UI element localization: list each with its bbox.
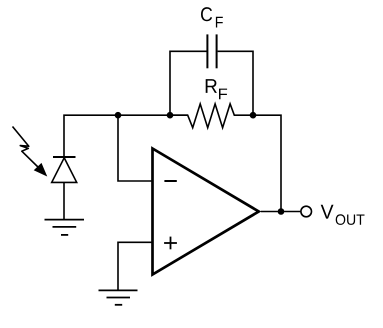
ground (photodiode) (45, 220, 85, 235)
photodiode D1: cathode bar (53, 156, 76, 158)
light arrow head (35, 164, 47, 176)
wire: non-inverting input to ground (118, 242, 152, 290)
wire: main wire right segment down to output node (253, 115, 281, 211)
wire: photodiode anode to ground (63, 182, 65, 219)
capacitor CF (207, 34, 216, 68)
label VOUT (321, 205, 334, 219)
wire: capacitor right side down to main wire (218, 51, 253, 115)
output terminal circle (301, 206, 312, 217)
wire: op-amp output (261, 211, 300, 213)
wire: left feedback riser to capacitor (170, 51, 207, 115)
wire: inverting input branch (118, 115, 152, 181)
junction dot: feedback left node (167, 112, 174, 119)
ground (op-amp non-inverting input) (99, 290, 138, 304)
junction dot: output node (278, 208, 285, 215)
photodiode D1: triangle (52, 158, 77, 183)
op-amp minus input symbol (164, 180, 176, 182)
junction dot: inverting input node (115, 112, 122, 119)
op-amp plus input symbol (164, 242, 177, 244)
junction dot: feedback right node (250, 112, 257, 119)
op-amp U1 (153, 149, 259, 275)
light arrow (photon) shaft with squiggle (13, 127, 41, 170)
label RF (206, 79, 217, 93)
resistor RF (170, 104, 253, 128)
wire: photodiode cathode riser and main horizontal to resistor (64, 115, 188, 157)
label CF (201, 7, 212, 21)
